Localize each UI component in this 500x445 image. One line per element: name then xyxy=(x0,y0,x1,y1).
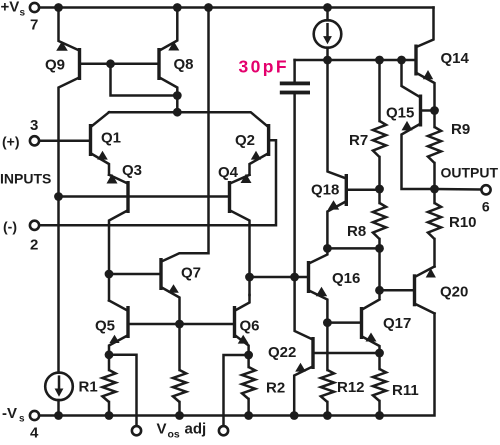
transistor Q22 bar xyxy=(311,337,314,369)
wire Q17 collector xyxy=(363,300,380,310)
arrow Q5 emitter xyxy=(109,335,119,343)
svg-text:R2: R2 xyxy=(266,380,285,397)
wire Rmid bottom lead xyxy=(178,402,181,416)
svg-text:Q3: Q3 xyxy=(122,162,142,179)
arrow Q22 emitter xyxy=(295,363,306,372)
wire Q5-Q6 base xyxy=(130,323,233,326)
transistor Q14 bar xyxy=(414,45,417,76)
svg-text:7: 7 xyxy=(30,17,38,34)
wire Q7 base xyxy=(109,273,159,276)
svg-text:R9: R9 xyxy=(451,121,470,138)
resistor R8 xyxy=(373,203,386,239)
junction bias/R7 xyxy=(375,56,384,65)
arrow Q3 emitter xyxy=(107,174,118,184)
junction Q16 emitter / Q17 base xyxy=(323,318,332,327)
terminal Vos adj right xyxy=(219,426,228,435)
resistor R10 xyxy=(428,203,441,239)
terminal -Vs pin 4 xyxy=(30,411,39,420)
wire R11 bottom lead xyxy=(378,401,381,416)
svg-text:s: s xyxy=(20,8,26,19)
junction Q7 emitter / bases xyxy=(175,320,184,329)
label R9 xyxy=(451,121,470,138)
pin number 2 xyxy=(30,237,38,254)
junction rail / R2 xyxy=(244,411,253,420)
wire R12 bottom lead xyxy=(326,402,329,416)
terminal (-) input pin 2 xyxy=(30,221,39,230)
arrow Q15 emitter xyxy=(402,121,413,130)
transistor Q15 bar xyxy=(419,95,422,127)
svg-text:Q7: Q7 xyxy=(181,265,201,282)
svg-text:Q18: Q18 xyxy=(311,182,339,199)
svg-text:Q8: Q8 xyxy=(174,56,194,73)
svg-text:Q1: Q1 xyxy=(101,130,121,147)
svg-text:Q5: Q5 xyxy=(95,318,115,335)
wire R12 top lead xyxy=(326,323,329,370)
wire Q9 emitter xyxy=(59,8,79,51)
transistor Q5 bar xyxy=(126,306,129,338)
label Q15 xyxy=(386,105,414,122)
arrow Q17 emitter xyxy=(366,333,377,342)
svg-text:INPUTS: INPUTS xyxy=(0,171,51,187)
wire C1 bottom lead xyxy=(293,94,296,277)
junction rail / R12 xyxy=(323,411,332,420)
wire node to Q16 base xyxy=(250,276,295,279)
svg-text:adj: adj xyxy=(185,421,207,438)
transistor Q8 bar xyxy=(157,48,160,80)
label Q20 xyxy=(440,284,468,301)
svg-text:Q16: Q16 xyxy=(332,270,360,287)
wire Q1 collector xyxy=(92,112,109,126)
resistor R7 xyxy=(373,121,386,157)
junction Q20 base node xyxy=(375,286,384,295)
junction rail / Rmid xyxy=(175,411,184,420)
label Q17 xyxy=(383,315,411,332)
transistor Q1 bar xyxy=(89,124,92,156)
label Q9 xyxy=(45,57,65,74)
transistor Q20 bar xyxy=(413,274,416,306)
wire Q16 base xyxy=(295,276,308,279)
svg-text:R10: R10 xyxy=(449,214,477,231)
svg-text:OUTPUT: OUTPUT xyxy=(441,165,499,181)
svg-text:+V: +V xyxy=(1,0,20,16)
wire Q20 collector xyxy=(416,304,435,313)
wire I2 to -Vs rail xyxy=(57,400,60,416)
wire Q8 collector xyxy=(160,78,177,112)
label INPUTS xyxy=(0,171,51,187)
svg-text:os: os xyxy=(168,429,180,441)
wire Q18 emitter xyxy=(327,202,345,248)
wire Rmid top lead xyxy=(178,324,181,370)
wire Q5 emitter xyxy=(109,336,127,355)
wire Q18 base xyxy=(348,189,380,192)
label R10 xyxy=(449,214,477,231)
wire Q3-Q4 base line xyxy=(59,195,229,198)
wire R9 top lead xyxy=(433,111,436,128)
svg-text:(-): (-) xyxy=(3,219,17,235)
wire R10 bottom lead xyxy=(433,239,436,267)
resistor R1 xyxy=(102,370,115,402)
svg-text:Q9: Q9 xyxy=(45,57,65,74)
label R8 xyxy=(347,223,366,240)
wire Q17 base xyxy=(327,321,360,324)
junction R8 bottom xyxy=(375,244,384,253)
junction top rail / Q8 emitter xyxy=(173,3,182,12)
junction Q18 emitter node xyxy=(323,244,332,253)
svg-text:6: 6 xyxy=(482,199,490,215)
terminal +Vs pin 7 xyxy=(30,3,39,12)
wire Q17 emitter xyxy=(363,337,380,353)
arrow Q6 emitter xyxy=(238,335,249,344)
wire I1 top lead xyxy=(326,8,329,21)
wire Q2 emitter xyxy=(250,154,268,175)
label R12 xyxy=(337,379,365,396)
junction R7/R8/Q18 base xyxy=(375,185,384,194)
label Q7 xyxy=(181,265,201,282)
wire bias node row xyxy=(295,59,415,62)
transistor Q17 bar xyxy=(360,307,363,339)
wire Q7 emitter xyxy=(163,288,180,324)
transistor Q2 bar xyxy=(267,124,270,156)
arrow Q4 emitter xyxy=(241,174,252,183)
terminal OUTPUT pin 6 xyxy=(481,185,490,194)
label Q8 xyxy=(174,56,194,73)
wire base tie to Q8 collector xyxy=(111,64,178,96)
wire Q22 emitter xyxy=(294,367,311,416)
junction Q6 emitter / R2 xyxy=(244,351,253,360)
junction rail / I2 xyxy=(54,411,63,420)
label Q3 xyxy=(122,162,142,179)
transistor Q16 bar xyxy=(307,261,310,293)
junction Q8 collector tie xyxy=(173,91,182,100)
wire R8 top lead xyxy=(378,189,381,203)
wire Q22 collector xyxy=(295,277,312,339)
label R2 xyxy=(266,380,285,397)
svg-text:R7: R7 xyxy=(349,132,368,149)
label -Vs xyxy=(2,405,25,425)
label Q4 xyxy=(218,164,239,181)
label Q5 xyxy=(95,318,115,335)
arrow Q9 emitter xyxy=(56,41,68,51)
wire R1 bottom lead xyxy=(108,402,111,416)
junction top rail / Q7 collector xyxy=(204,3,213,12)
junction bias/Q15 collector xyxy=(397,56,406,65)
capacitor C1 plate top xyxy=(280,82,310,86)
wire Q15 emitter xyxy=(402,125,435,190)
wire Q20 emitter xyxy=(416,267,435,277)
label Q2 xyxy=(235,132,255,149)
label Vos adj xyxy=(157,421,207,441)
label (+) xyxy=(2,134,20,150)
transistor Q7 bar xyxy=(159,258,162,290)
wire bottom -Vs rail xyxy=(39,314,434,416)
svg-text:Q22: Q22 xyxy=(268,344,296,361)
arrow Q1 emitter xyxy=(97,151,108,160)
label OUTPUT xyxy=(441,165,499,181)
arrow Q16 emitter xyxy=(316,287,327,297)
wire R7 bottom lead xyxy=(378,157,381,189)
svg-text:30pF: 30pF xyxy=(239,57,289,77)
pin number 7 xyxy=(30,17,38,34)
label Q18 xyxy=(311,182,339,199)
wire Q5 collector xyxy=(109,301,127,311)
svg-text:R8: R8 xyxy=(347,223,366,240)
junction rail / R11 xyxy=(375,411,384,420)
label R1 xyxy=(79,379,98,396)
pin number 4 xyxy=(30,425,39,442)
wire Q4 collector xyxy=(231,211,250,295)
svg-text:Q17: Q17 xyxy=(383,315,411,332)
svg-text:Q2: Q2 xyxy=(235,132,255,149)
wire Q9-Q8 base xyxy=(81,63,157,66)
arrow Q7 emitter xyxy=(168,284,179,293)
label Q1 xyxy=(101,130,121,147)
wire Q3 collector xyxy=(109,211,127,301)
arrow Q14 emitter xyxy=(423,70,433,79)
svg-text:Q14: Q14 xyxy=(441,50,470,67)
junction Q17 emitter / R11 / Q22 base xyxy=(375,349,384,358)
transistor Q3 bar xyxy=(126,181,129,213)
wire R9 bottom lead xyxy=(433,163,436,189)
wire R7 top lead xyxy=(378,60,381,121)
wire R2 bottom lead xyxy=(247,399,250,416)
transistor Q6 bar xyxy=(233,306,236,338)
wire top +Vs rail xyxy=(39,6,433,9)
label Q6 xyxy=(240,318,260,335)
label Q16 xyxy=(332,270,360,287)
arrow Q18 emitter xyxy=(328,200,339,209)
current source I2 xyxy=(45,373,73,401)
wire Q1 emitter xyxy=(92,154,109,175)
wire Q15 collector xyxy=(402,60,420,97)
resistor Rmid (Vos adj) xyxy=(173,370,186,402)
wire Q3 emitter xyxy=(109,175,127,183)
junction bias/I1 xyxy=(323,56,332,65)
label R7 xyxy=(349,132,368,149)
transistor Q18 bar xyxy=(345,174,348,206)
svg-text:4: 4 xyxy=(30,425,39,441)
wire Q20 base xyxy=(380,289,414,292)
label (-) xyxy=(3,219,17,235)
junction top rail / Q9 emitter xyxy=(54,3,63,12)
label Q14 xyxy=(441,50,470,67)
svg-text:Q4: Q4 xyxy=(218,164,239,181)
resistor R9 xyxy=(428,127,441,163)
arrow Q8 emitter xyxy=(168,41,179,50)
junction rail / Q22 emitter xyxy=(290,411,299,420)
capacitor C1 plate bottom xyxy=(280,91,310,95)
terminal (+) input pin 3 xyxy=(30,136,39,145)
junction rail / R1 xyxy=(105,411,114,420)
wire Q18emitter-R8 link xyxy=(327,247,379,250)
svg-text:3: 3 xyxy=(30,117,38,134)
svg-text:Q15: Q15 xyxy=(386,105,414,122)
junction Q14 emitter / R9 / Q15 base xyxy=(430,106,439,115)
wire Q8 emitter xyxy=(160,8,177,51)
wire right Vos adj xyxy=(224,355,249,426)
wire Q14 collector xyxy=(417,8,433,47)
wire C1 top lead xyxy=(293,60,296,82)
wire R1 top lead xyxy=(108,355,111,370)
wire (-) input to Q2 base xyxy=(39,140,276,225)
label 30pF xyxy=(239,57,289,77)
label Q22 xyxy=(268,344,296,361)
svg-text:R1: R1 xyxy=(79,379,98,396)
pin number 3 xyxy=(30,117,38,134)
resistor R12 xyxy=(321,370,334,402)
label R11 xyxy=(392,382,419,399)
wire R8 bottom lead xyxy=(378,239,381,248)
svg-text:R12: R12 xyxy=(337,379,365,396)
wire Q15 base xyxy=(422,109,435,112)
junction C1 / Q22 collector / Q16 base xyxy=(290,273,299,282)
label +Vs xyxy=(1,0,26,19)
arrow Q20 emitter xyxy=(426,268,436,277)
junction Q5 emitter / R1 xyxy=(105,350,114,359)
junction top rail / current source I1 xyxy=(323,3,332,12)
resistor R11 xyxy=(373,369,386,401)
svg-text:Q20: Q20 xyxy=(440,284,468,301)
wire Q22 base xyxy=(314,352,379,355)
svg-text:2: 2 xyxy=(30,237,38,254)
svg-text:R11: R11 xyxy=(392,382,419,399)
wire Q1-Q2 collector line xyxy=(109,112,267,126)
wire Q4 emitter xyxy=(231,175,250,183)
current source I1 xyxy=(314,20,342,48)
wire R2 top lead xyxy=(247,355,250,367)
terminal Vos adj left xyxy=(132,426,141,435)
wire R11 top lead xyxy=(378,353,381,369)
wire Q6 collector xyxy=(236,295,250,310)
junction Q9 collector / base line xyxy=(54,192,63,201)
pin number 6 xyxy=(482,199,490,215)
wire Q7 collector to +Vs xyxy=(163,8,209,262)
wire left Vos adj xyxy=(109,355,137,426)
svg-text:Q6: Q6 xyxy=(240,318,260,335)
transistor Q4 bar xyxy=(228,181,231,213)
junction Q4/Q6 collectors node xyxy=(245,273,254,282)
junction node Q8 collector / input collectors xyxy=(173,108,182,117)
svg-text:s: s xyxy=(19,414,25,425)
wire R10 top lead xyxy=(433,189,436,203)
wire output xyxy=(435,188,482,191)
wire Q16 emitter xyxy=(310,291,328,323)
svg-text:(+): (+) xyxy=(2,134,20,150)
junction base tie xyxy=(106,59,115,68)
wire Q6 emitter xyxy=(236,336,249,355)
wire Q14 emitter xyxy=(417,74,434,111)
transistor Q9 bar xyxy=(78,48,81,80)
junction Q3 collector / Q7 base xyxy=(105,270,114,279)
wire Q9 collector xyxy=(59,78,79,373)
svg-text:V: V xyxy=(157,421,167,438)
wire I1 bottom lead xyxy=(326,48,329,60)
junction output node xyxy=(430,185,439,194)
resistor R2 xyxy=(242,367,255,399)
wire Q16 collector xyxy=(310,248,328,263)
wire R8 bottom to Q17 collector xyxy=(378,248,381,297)
wire Q18 collector xyxy=(328,60,345,178)
wire (+) input to Q1 base xyxy=(39,140,89,143)
svg-text:-V: -V xyxy=(2,405,17,422)
arrow Q2 emitter xyxy=(251,151,261,160)
